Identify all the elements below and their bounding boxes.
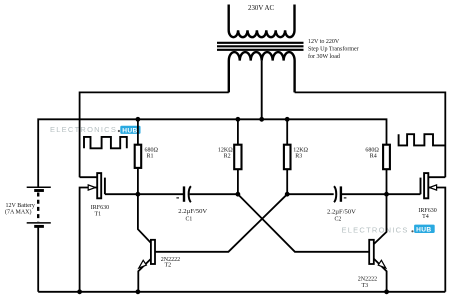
svg-text:12KΩ: 12KΩ (293, 147, 308, 153)
svg-text:T2: T2 (165, 263, 172, 269)
svg-text:R3: R3 (295, 154, 302, 160)
svg-text:T3: T3 (362, 283, 369, 289)
svg-text:12V to 220V: 12V to 220V (308, 39, 340, 45)
svg-text:R4: R4 (370, 154, 377, 160)
svg-text:R2: R2 (224, 154, 231, 160)
svg-text:T1: T1 (95, 211, 102, 217)
svg-text:680Ω: 680Ω (365, 147, 379, 153)
svg-text:HUB: HUB (122, 127, 138, 134)
svg-text:R1: R1 (147, 154, 154, 160)
svg-text:2.2µF/50V: 2.2µF/50V (178, 208, 207, 215)
svg-text:2.2µF/50V: 2.2µF/50V (327, 209, 356, 216)
svg-text:680Ω: 680Ω (145, 147, 159, 153)
svg-text:2N2222: 2N2222 (358, 277, 377, 283)
svg-text:12KΩ: 12KΩ (218, 147, 233, 153)
svg-text:IRF630: IRF630 (418, 208, 436, 214)
svg-text:HUB: HUB (416, 226, 432, 233)
svg-text:Step Up Transformer: Step Up Transformer (308, 46, 359, 53)
svg-text:ELECTRONICS: ELECTRONICS (342, 225, 409, 234)
svg-text:(7A MAX): (7A MAX) (5, 208, 32, 215)
svg-text:C1: C1 (186, 216, 193, 222)
svg-text:C2: C2 (335, 217, 342, 223)
svg-text:for 30W load: for 30W load (308, 53, 340, 60)
svg-text:ELECTRONICS: ELECTRONICS (50, 125, 117, 134)
svg-text:T4: T4 (422, 214, 429, 220)
svg-text:12V Battery: 12V Battery (6, 203, 35, 209)
svg-text:230V AC: 230V AC (248, 5, 275, 12)
svg-text:IRF630: IRF630 (91, 205, 109, 211)
